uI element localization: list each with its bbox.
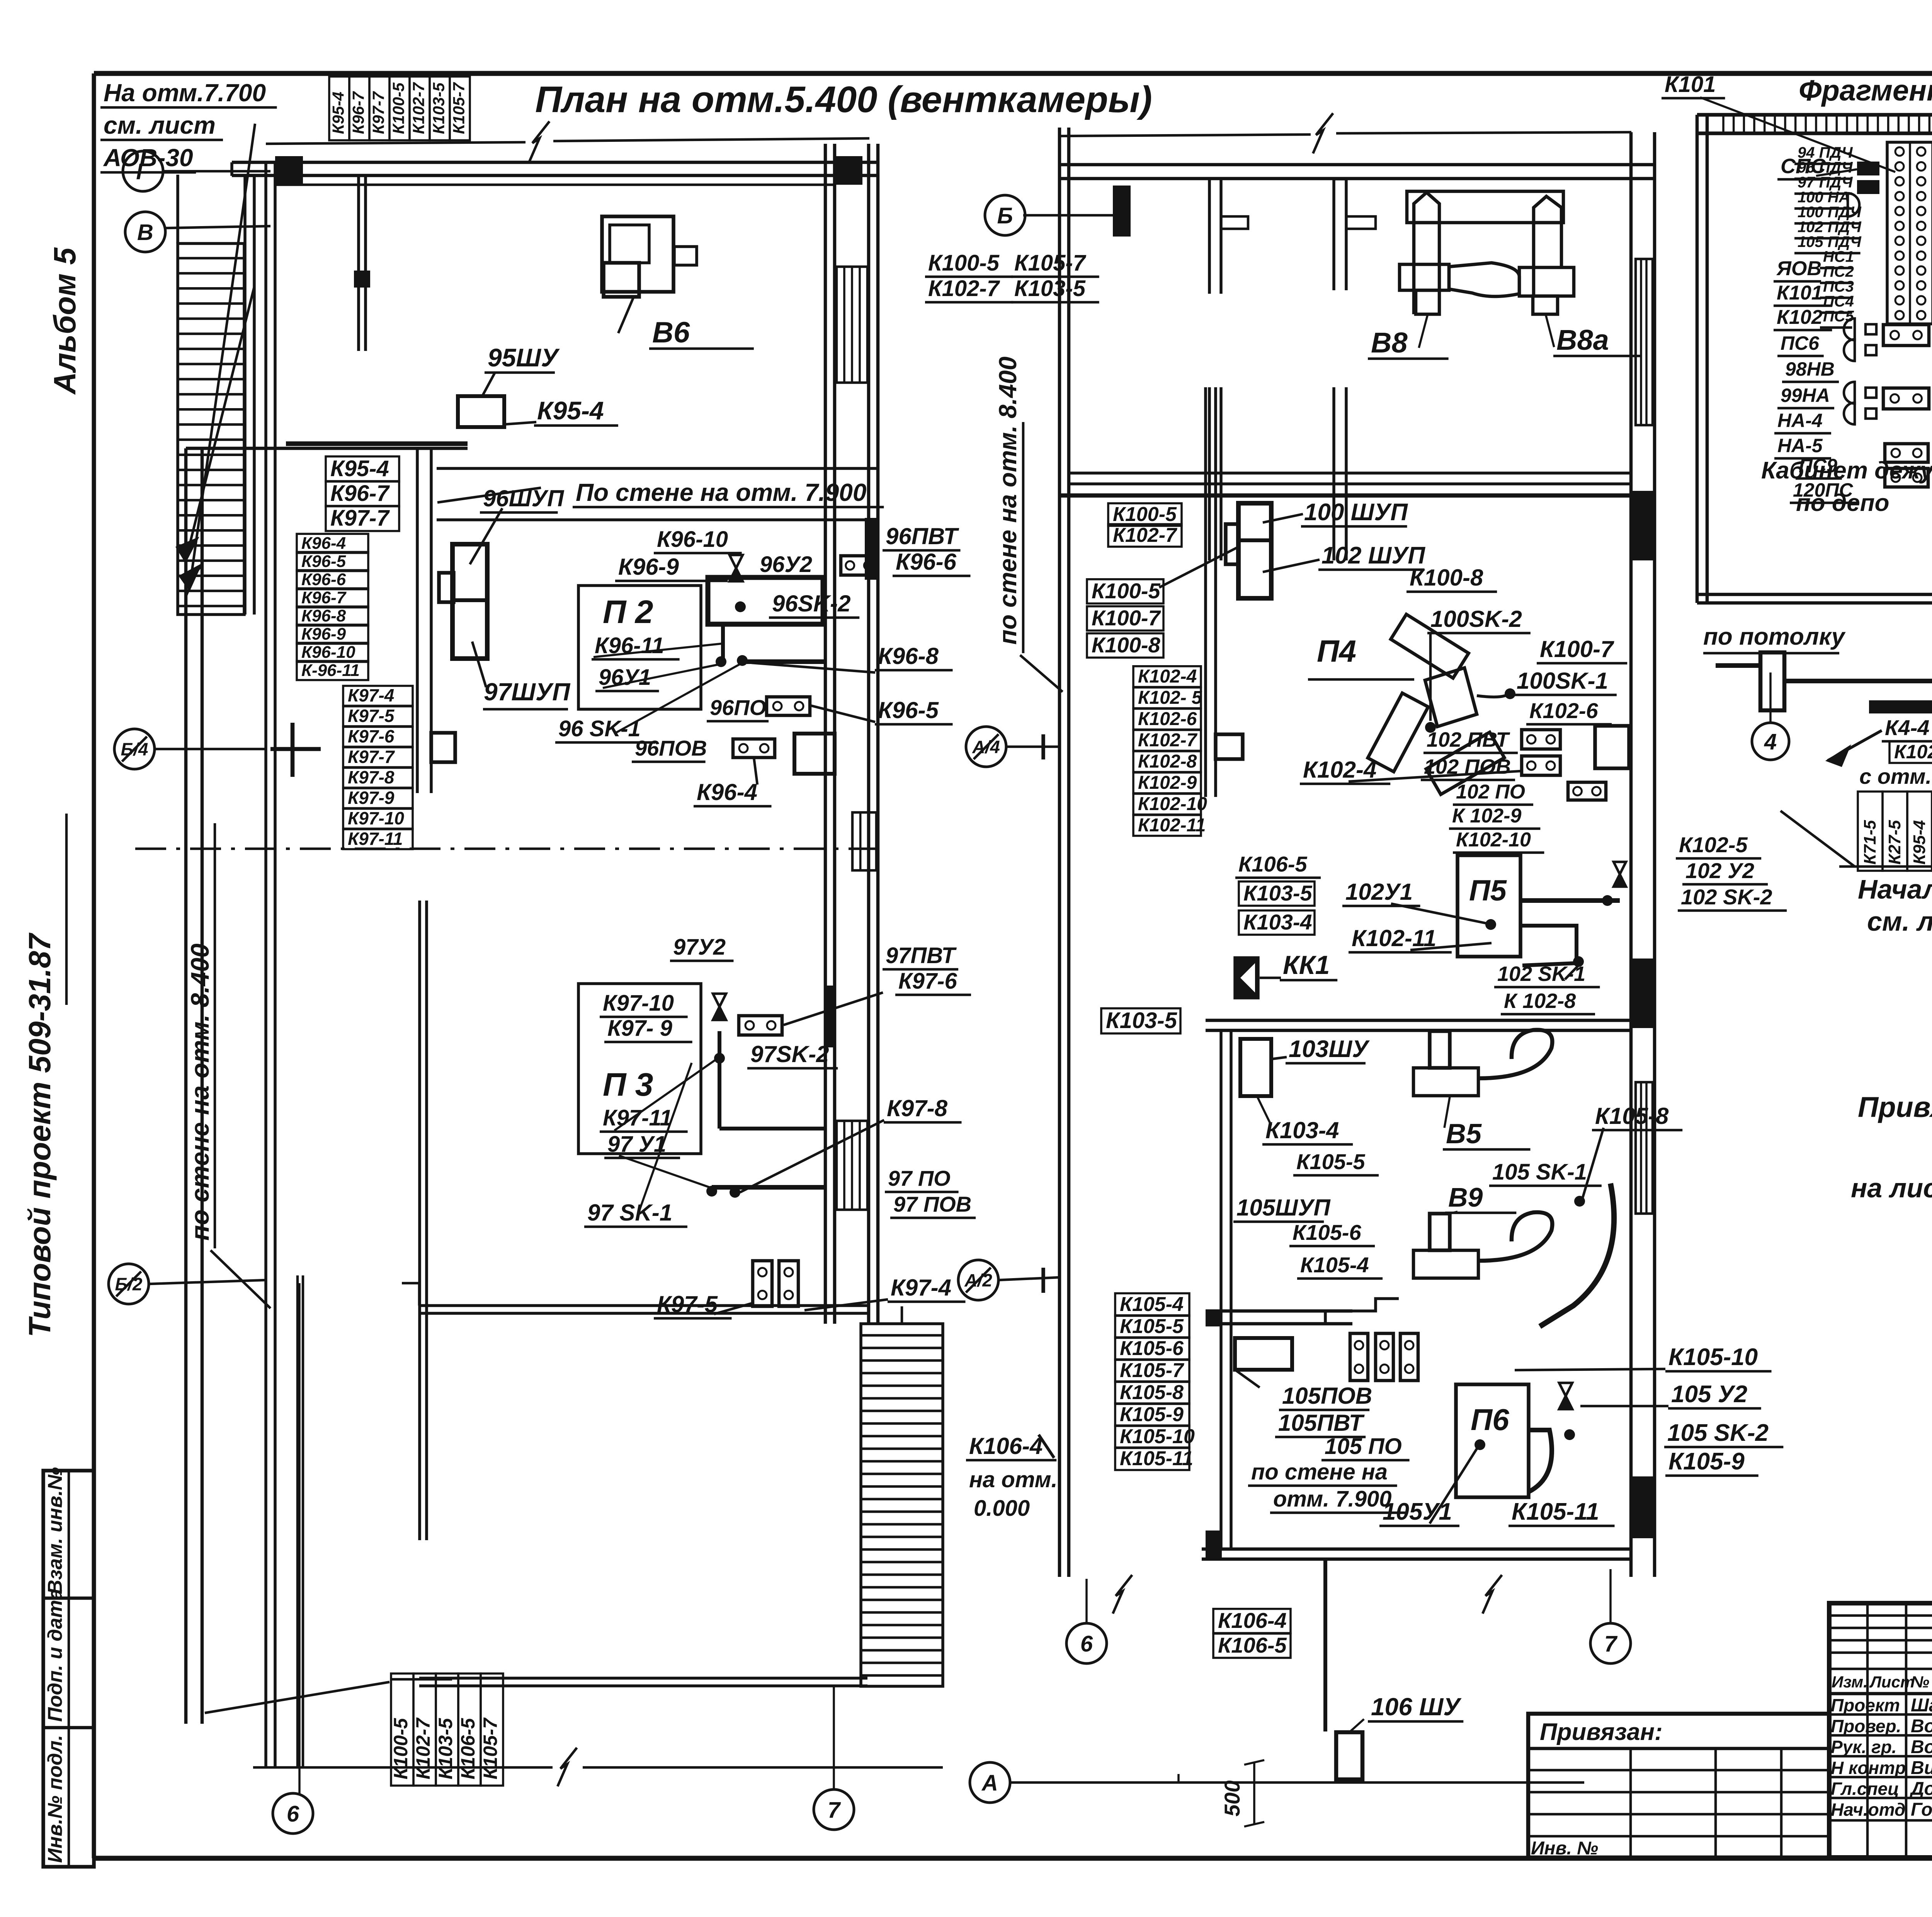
svg-text:К96-10: К96-10 — [657, 527, 728, 552]
svg-text:К96-5: К96-5 — [878, 697, 939, 723]
svg-text:Б: Б — [997, 203, 1013, 228]
svg-text:97 SK-1: 97 SK-1 — [587, 1200, 672, 1226]
svg-text:Вишневский: Вишневский — [1911, 1758, 1932, 1778]
svg-text:по депо: по депо — [1796, 490, 1889, 516]
svg-text:К96-11: К96-11 — [595, 633, 664, 658]
svg-text:К102-9: К102-9 — [1138, 773, 1197, 793]
svg-text:К102-7: К102-7 — [412, 1717, 434, 1779]
svg-text:отм. 7.900: отм. 7.900 — [1273, 1486, 1392, 1512]
svg-text:96У2: 96У2 — [760, 552, 812, 577]
svg-text:К105-10: К105-10 — [1668, 1344, 1758, 1371]
svg-text:102 SK-2: 102 SK-2 — [1681, 885, 1772, 909]
svg-text:ПС3: ПС3 — [1823, 278, 1854, 295]
svg-text:К100-5: К100-5 — [1092, 579, 1161, 603]
svg-text:105 У2: 105 У2 — [1671, 1381, 1747, 1408]
svg-text:Домбровский: Домбровский — [1909, 1779, 1932, 1799]
svg-text:102 ПО: 102 ПО — [1456, 781, 1525, 803]
svg-text:97 У1: 97 У1 — [607, 1132, 666, 1157]
svg-text:К105-6: К105-6 — [1120, 1337, 1184, 1360]
svg-text:ПС2: ПС2 — [1823, 263, 1854, 280]
svg-text:Привязан:: Привязан: — [1540, 1719, 1663, 1745]
svg-text:К96-10: К96-10 — [301, 643, 355, 662]
svg-text:В9: В9 — [1448, 1182, 1483, 1212]
svg-text:Альбом 5: Альбом 5 — [48, 247, 82, 395]
svg-text:КК1: КК1 — [1283, 950, 1330, 980]
svg-text:К105-9: К105-9 — [1668, 1448, 1745, 1475]
svg-text:Голодник: Голодник — [1911, 1800, 1932, 1820]
svg-text:К106-4: К106-4 — [1218, 1608, 1287, 1633]
svg-text:Волкова: Волкова — [1911, 1737, 1932, 1757]
svg-text:К105-10: К105-10 — [1120, 1425, 1195, 1448]
svg-text:105ШУП: 105ШУП — [1236, 1195, 1331, 1221]
svg-text:Волкова: Волкова — [1911, 1716, 1932, 1737]
svg-text:К96-6: К96-6 — [896, 549, 957, 575]
svg-text:К96-6: К96-6 — [301, 570, 346, 589]
svg-text:К102- 5: К102- 5 — [1138, 688, 1202, 708]
svg-text:К102-10: К102-10 — [1138, 794, 1207, 814]
svg-text:К96-4: К96-4 — [301, 534, 346, 553]
svg-text:К102-8: К102-8 — [1138, 751, 1197, 772]
svg-text:К103-5: К103-5 — [1106, 1008, 1177, 1033]
svg-text:по стене на: по стене на — [1251, 1459, 1388, 1485]
svg-text:по стене на отм. 8.400: по стене на отм. 8.400 — [994, 357, 1022, 645]
svg-text:К102-4: К102-4 — [1303, 757, 1376, 783]
svg-text:97 ПО: 97 ПО — [888, 1166, 951, 1190]
svg-text:П4: П4 — [1317, 634, 1356, 668]
svg-text:К96-8: К96-8 — [878, 643, 939, 669]
svg-text:К97-10: К97-10 — [348, 808, 404, 828]
svg-text:НС1: НС1 — [1823, 249, 1854, 266]
svg-text:100 НА: 100 НА — [1798, 189, 1850, 206]
svg-text:К102-7: К102-7 — [1113, 524, 1177, 546]
svg-text:К103-4: К103-4 — [1265, 1117, 1339, 1143]
svg-text:98НВ: 98НВ — [1785, 358, 1835, 380]
svg-text:6: 6 — [1080, 1631, 1093, 1657]
svg-text:К97-10: К97-10 — [603, 991, 674, 1016]
svg-text:К97-8: К97-8 — [887, 1095, 948, 1121]
svg-text:ЯОВ: ЯОВ — [1776, 257, 1821, 280]
svg-text:6: 6 — [287, 1801, 299, 1827]
svg-text:К105-8: К105-8 — [1595, 1103, 1669, 1129]
svg-text:103ШУ: 103ШУ — [1289, 1036, 1370, 1062]
svg-text:К27-5: К27-5 — [1885, 820, 1904, 865]
svg-text:К102-7: К102-7 — [1138, 730, 1198, 751]
svg-text:К97-4: К97-4 — [348, 685, 394, 705]
svg-text:96ПОВ: 96ПОВ — [635, 736, 707, 760]
svg-text:102 ПДЧ: 102 ПДЧ — [1798, 219, 1862, 236]
svg-text:К102-4: К102-4 — [1138, 666, 1197, 687]
svg-text:К101: К101 — [1777, 282, 1823, 304]
svg-text:К97-9: К97-9 — [348, 788, 395, 808]
svg-text:На отм.7.700: На отм.7.700 — [104, 79, 266, 107]
svg-text:7: 7 — [828, 1798, 841, 1823]
svg-text:К97-6: К97-6 — [348, 726, 395, 746]
svg-text:К102-10: К102-10 — [1456, 829, 1531, 851]
svg-text:К106-5: К106-5 — [457, 1718, 479, 1779]
svg-text:К97- 9: К97- 9 — [607, 1016, 672, 1041]
svg-text:По стене на отм. 7.900: По стене на отм. 7.900 — [576, 478, 866, 506]
svg-text:0.000: 0.000 — [974, 1496, 1030, 1521]
svg-text:4: 4 — [1764, 729, 1777, 754]
svg-text:Нач.отд: Нач.отд — [1831, 1800, 1905, 1820]
svg-text:Н контр: Н контр — [1831, 1758, 1906, 1778]
svg-text:96У1: 96У1 — [599, 665, 651, 690]
svg-text:Шапошникова: Шапошникова — [1911, 1695, 1932, 1716]
svg-text:К71-5: К71-5 — [1861, 820, 1879, 865]
svg-text:Г: Г — [136, 159, 151, 184]
svg-text:К105-9: К105-9 — [1120, 1403, 1184, 1426]
svg-text:на листах ЭМ-19 ... ЭМ-22: на листах ЭМ-19 ... ЭМ-22 — [1851, 1173, 1932, 1203]
svg-text:К102: К102 — [1894, 741, 1932, 763]
svg-text:105ПОВ: 105ПОВ — [1282, 1383, 1372, 1409]
svg-text:К96-5: К96-5 — [301, 552, 346, 571]
svg-text:К97-4: К97-4 — [891, 1275, 951, 1301]
svg-text:К102-6: К102-6 — [1529, 698, 1599, 723]
svg-text:99НА: 99НА — [1781, 385, 1830, 406]
svg-text:К103-4: К103-4 — [1243, 910, 1312, 934]
svg-text:П 3: П 3 — [603, 1066, 653, 1103]
svg-text:К97-11: К97-11 — [348, 829, 403, 849]
svg-text:К102-7: К102-7 — [928, 276, 1000, 301]
svg-text:К101: К101 — [1665, 72, 1716, 97]
svg-text:К95-4: К95-4 — [330, 456, 389, 481]
svg-text:Подп. и дата: Подп. и дата — [44, 1589, 66, 1722]
svg-text:по потолку: по потолку — [1703, 623, 1846, 650]
svg-text:К103-5: К103-5 — [429, 82, 447, 134]
svg-text:К100-5: К100-5 — [389, 82, 407, 134]
svg-text:А: А — [981, 1771, 998, 1796]
svg-text:Инв. №: Инв. № — [1531, 1838, 1598, 1859]
svg-text:К100-8: К100-8 — [1092, 633, 1161, 657]
svg-text:К105-6: К105-6 — [1293, 1220, 1362, 1245]
svg-text:К106-4: К106-4 — [969, 1433, 1043, 1459]
svg-text:К102-11: К102-11 — [1138, 815, 1206, 836]
svg-text:К105-4: К105-4 — [1120, 1293, 1184, 1316]
svg-text:К103-5: К103-5 — [435, 1718, 456, 1779]
svg-text:К106-5: К106-5 — [1218, 1633, 1287, 1657]
svg-text:7: 7 — [1604, 1631, 1618, 1657]
svg-text:В5: В5 — [1446, 1119, 1482, 1149]
svg-text:102 ПВТ: 102 ПВТ — [1427, 728, 1510, 751]
svg-text:100SK-2: 100SK-2 — [1430, 606, 1522, 632]
svg-text:К105-5: К105-5 — [1296, 1149, 1366, 1174]
svg-text:Изм.: Изм. — [1832, 1673, 1868, 1691]
svg-text:97ПВТ: 97ПВТ — [886, 943, 957, 968]
svg-text:К96-8: К96-8 — [301, 606, 346, 625]
svg-text:100SK-1: 100SK-1 — [1517, 668, 1608, 694]
svg-text:Лист: Лист — [1869, 1673, 1915, 1691]
svg-text:К105-11: К105-11 — [1512, 1498, 1599, 1525]
svg-text:К97-6: К97-6 — [898, 969, 957, 994]
svg-text:К105-7: К105-7 — [449, 82, 468, 134]
svg-text:по стене на отм. 8.400: по стене на отм. 8.400 — [185, 943, 214, 1241]
svg-text:К100-5: К100-5 — [1113, 503, 1177, 526]
svg-text:105ПВТ: 105ПВТ — [1278, 1410, 1365, 1436]
svg-text:96ПО: 96ПО — [710, 695, 766, 720]
svg-text:К96-4: К96-4 — [697, 779, 757, 805]
svg-text:97У2: 97У2 — [673, 935, 726, 960]
svg-text:П5: П5 — [1469, 874, 1507, 907]
svg-text:100 ШУП: 100 ШУП — [1304, 499, 1408, 526]
svg-text:В8: В8 — [1371, 327, 1408, 359]
svg-text:105 SK-1: 105 SK-1 — [1492, 1159, 1587, 1185]
svg-text:К105-8: К105-8 — [1120, 1381, 1184, 1404]
svg-text:К95-4: К95-4 — [1910, 820, 1929, 865]
svg-text:В8а: В8а — [1556, 324, 1609, 356]
svg-text:500: 500 — [1220, 1781, 1244, 1817]
svg-text:К97-7: К97-7 — [369, 91, 387, 134]
svg-text:на отм.: на отм. — [969, 1467, 1058, 1492]
svg-text:П6: П6 — [1471, 1403, 1509, 1437]
svg-text:105 ПО: 105 ПО — [1325, 1434, 1402, 1459]
svg-text:97ШУП: 97ШУП — [484, 678, 571, 706]
svg-text:К105-7: К105-7 — [480, 1717, 501, 1779]
svg-text:К96-9: К96-9 — [618, 554, 679, 580]
svg-text:НА-5: НА-5 — [1777, 435, 1823, 456]
svg-text:105 ПДЧ: 105 ПДЧ — [1798, 233, 1862, 250]
svg-text:НА-4: НА-4 — [1777, 410, 1823, 431]
svg-text:Начало кабельной трассы: Начало кабельной трассы — [1858, 874, 1932, 904]
svg-text:План на отм.5.400 (венткамеры): План на отм.5.400 (венткамеры) — [535, 79, 1152, 120]
svg-text:Кабинет дежурного: Кабинет дежурного — [1761, 457, 1932, 484]
svg-text:97 ПОВ: 97 ПОВ — [893, 1192, 971, 1216]
svg-text:Рук. гр.: Рук. гр. — [1831, 1737, 1897, 1757]
svg-text:Привязку шкафов управления: Привязку шкафов управления — [1858, 1091, 1932, 1123]
svg-text:см. лист: см. лист — [104, 111, 216, 139]
svg-text:ПС4: ПС4 — [1823, 293, 1854, 310]
svg-text:К96-7: К96-7 — [330, 481, 390, 506]
svg-text:К105-7: К105-7 — [1014, 250, 1087, 276]
svg-text:К95-4: К95-4 — [329, 92, 347, 134]
svg-text:К102-7: К102-7 — [409, 82, 427, 134]
svg-text:№ докум.: № докум. — [1911, 1673, 1932, 1691]
svg-text:Взам. инв.№: Взам. инв.№ — [44, 1467, 66, 1594]
svg-text:В6: В6 — [652, 316, 690, 349]
svg-text:96ПВТ: 96ПВТ — [886, 523, 959, 549]
svg-text:Проект: Проект — [1831, 1695, 1900, 1715]
svg-text:102 SK-1: 102 SK-1 — [1497, 962, 1585, 986]
svg-text:К96-7: К96-7 — [349, 91, 367, 134]
svg-text:К95-4: К95-4 — [537, 396, 604, 425]
svg-text:96 SK-1: 96 SK-1 — [558, 716, 641, 741]
svg-text:К100-5: К100-5 — [390, 1718, 412, 1779]
svg-text:К105-7: К105-7 — [1120, 1359, 1184, 1382]
svg-text:Провер.: Провер. — [1831, 1716, 1901, 1736]
svg-text:К102-11: К102-11 — [1352, 925, 1436, 951]
svg-text:К105-11: К105-11 — [1120, 1447, 1193, 1470]
svg-text:К97-7: К97-7 — [330, 506, 390, 531]
svg-text:ПС5: ПС5 — [1823, 308, 1854, 325]
svg-text:К96-7: К96-7 — [301, 588, 347, 607]
svg-text:95ШУ: 95ШУ — [488, 343, 560, 372]
svg-text:102У1: 102У1 — [1345, 879, 1413, 905]
svg-text:К102: К102 — [1777, 306, 1823, 329]
svg-text:К100-5: К100-5 — [928, 250, 1000, 276]
svg-text:106 ШУ: 106 ШУ — [1371, 1693, 1462, 1721]
svg-text:К97-7: К97-7 — [348, 747, 395, 767]
svg-text:К4-4: К4-4 — [1885, 715, 1929, 740]
svg-text:К103-5: К103-5 — [1014, 276, 1086, 301]
svg-text:К-96-11: К-96-11 — [301, 661, 360, 680]
svg-text:В: В — [137, 220, 153, 245]
svg-text:К 102-9: К 102-9 — [1452, 805, 1521, 827]
svg-text:К100-8: К100-8 — [1410, 565, 1483, 591]
svg-text:Фрагмент плана на отм. 3,300: Фрагмент плана на отм. 3,300 — [1799, 74, 1932, 107]
svg-text:К102-6: К102-6 — [1138, 709, 1197, 729]
svg-text:К97-5: К97-5 — [348, 706, 395, 726]
svg-text:К105-4: К105-4 — [1300, 1253, 1369, 1277]
svg-text:96SK-2: 96SK-2 — [772, 591, 850, 616]
svg-text:Типовой проект 509-31.87: Типовой проект 509-31.87 — [22, 932, 57, 1337]
svg-text:105 SK-2: 105 SK-2 — [1667, 1420, 1769, 1446]
svg-text:ПС6: ПС6 — [1781, 332, 1820, 354]
svg-text:К106-5: К106-5 — [1238, 852, 1308, 876]
svg-text:Инв.№ подл.: Инв.№ подл. — [44, 1735, 66, 1863]
svg-text:П 2: П 2 — [603, 594, 653, 630]
svg-text:Гл.спец: Гл.спец — [1831, 1779, 1899, 1799]
svg-text:с отм. 2,970: с отм. 2,970 — [1859, 764, 1932, 788]
svg-text:К96-9: К96-9 — [301, 625, 346, 644]
svg-text:96ШУП: 96ШУП — [483, 485, 565, 511]
svg-text:97SK-2: 97SK-2 — [750, 1041, 829, 1067]
svg-text:100 ПДЧ: 100 ПДЧ — [1798, 204, 1862, 221]
svg-text:К 102-8: К 102-8 — [1504, 989, 1576, 1013]
svg-text:102 У2: 102 У2 — [1685, 858, 1754, 883]
svg-text:К102-5: К102-5 — [1679, 833, 1748, 857]
svg-text:К103-5: К103-5 — [1243, 881, 1313, 905]
svg-text:К97-8: К97-8 — [348, 767, 395, 787]
svg-text:К105-5: К105-5 — [1120, 1315, 1184, 1338]
svg-text:К100-7: К100-7 — [1092, 606, 1162, 630]
svg-text:К100-7: К100-7 — [1540, 636, 1614, 662]
svg-text:К97-11: К97-11 — [603, 1105, 672, 1130]
svg-text:см. лист АОВ-30: см. лист АОВ-30 — [1867, 906, 1932, 936]
